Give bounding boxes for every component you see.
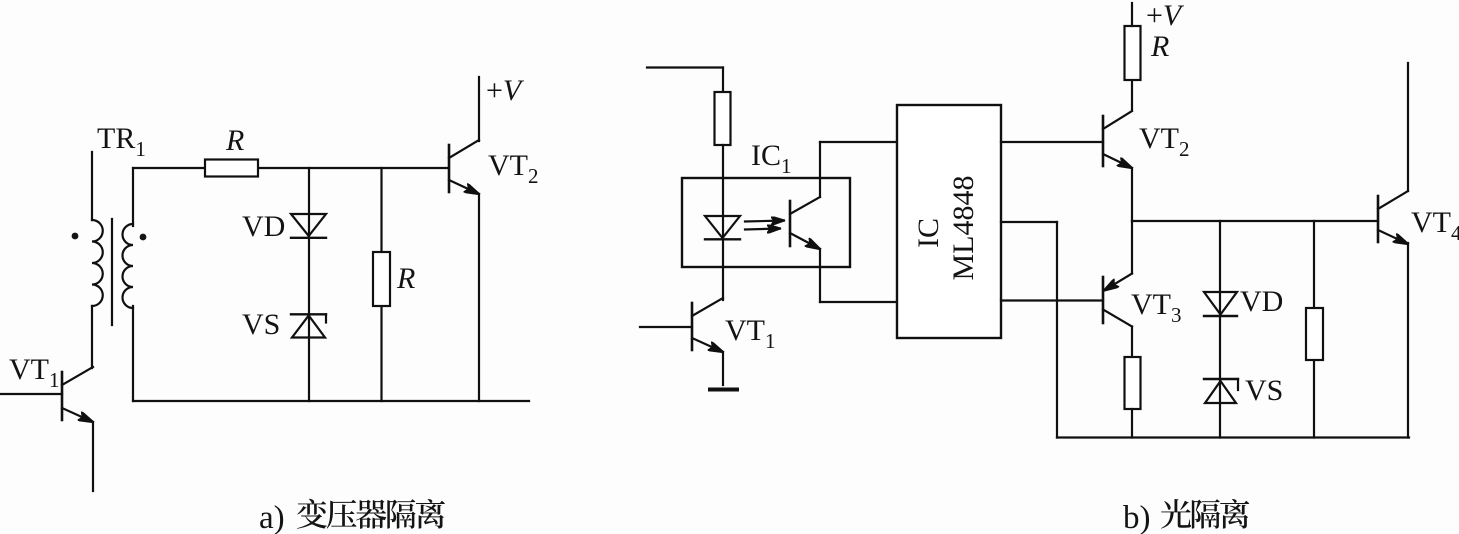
resistor R (load) xyxy=(373,252,390,306)
wire VT4 emitter to rail xyxy=(1407,243,1409,438)
light arrow lower xyxy=(745,229,780,230)
light arrow upper xyxy=(745,221,784,222)
wire LED branch xyxy=(722,145,724,300)
caption char 光 xyxy=(1161,499,1191,529)
wire VD/VS branch xyxy=(308,168,310,401)
wire secondary bottom lead xyxy=(132,306,134,401)
svg-text:VD: VD xyxy=(242,210,285,243)
wire VD/VS branch b xyxy=(1219,221,1221,438)
svg-text:VS: VS xyxy=(242,308,280,341)
wire VT1(b) emitter lead xyxy=(722,352,724,385)
transistor VT2 (b) xyxy=(1103,111,1132,168)
wire VT1 base lead xyxy=(0,393,62,395)
wire IC pin 2 xyxy=(1001,221,1057,223)
diode VD (b) xyxy=(1204,292,1237,316)
wire transformer primary bottom lead xyxy=(91,306,93,368)
wire VT2(b) emitter to node xyxy=(1131,168,1133,221)
wire opto to IC pin4 xyxy=(820,301,897,303)
LED (optocoupler) xyxy=(705,216,740,239)
wire +V lead (b) xyxy=(1131,3,1133,26)
wire R branch xyxy=(380,168,382,401)
op-amp IC ML4848 box xyxy=(897,105,1001,338)
resistor (output) xyxy=(1306,308,1323,360)
wire VT1 emitter lead xyxy=(92,422,94,491)
transistor VT2 xyxy=(449,140,479,194)
svg-text:R: R xyxy=(225,124,244,157)
wire VT1(b) base lead xyxy=(640,326,692,328)
svg-text:VD: VD xyxy=(1240,285,1283,318)
svg-text:+V: +V xyxy=(486,74,525,107)
transistor VT1 xyxy=(62,367,93,422)
transformer TR1 primary winding xyxy=(92,220,103,306)
wire node to VT3 emitter xyxy=(1131,221,1133,274)
wire transformer primary top lead xyxy=(91,152,93,220)
diode VD xyxy=(291,214,326,238)
transformer TR1 secondary winding xyxy=(123,224,134,308)
wire VT3 collector xyxy=(1131,327,1133,358)
svg-text:VS: VS xyxy=(1245,374,1283,407)
wire VT4 collector stub xyxy=(1407,63,1409,191)
caption char 离 xyxy=(416,499,445,529)
svg-text:ML4848: ML4848 xyxy=(947,176,980,281)
wire top rail a xyxy=(133,167,449,169)
wire secondary top lead xyxy=(132,168,134,226)
wire IC pin to VT3 base xyxy=(1001,299,1103,301)
transistor VT4 xyxy=(1378,191,1408,244)
transistor VT3 (PNP) xyxy=(1103,274,1132,327)
wire resistor branch b xyxy=(1313,221,1315,438)
caption char 隔 xyxy=(1192,499,1220,528)
wire VT2(b) collector xyxy=(1131,80,1133,110)
zener diode VS (b) xyxy=(1204,379,1238,403)
wire input lead xyxy=(722,68,724,93)
caption char 变 xyxy=(297,499,327,529)
polarity dot secondary xyxy=(140,234,147,241)
wire bottom rail a xyxy=(133,400,529,402)
wire opto to IC pin1 xyxy=(820,141,897,143)
resistor R (series) xyxy=(205,160,258,177)
svg-text:b): b) xyxy=(1123,500,1151,534)
wire node to VT4 base xyxy=(1132,220,1378,222)
phototransistor xyxy=(790,197,820,249)
wire VT2 emitter lead xyxy=(478,194,480,401)
caption char 器 xyxy=(356,500,386,529)
resistor R (b) xyxy=(1125,26,1141,80)
resistor (input) xyxy=(715,92,731,145)
wire VT2 collector to +V xyxy=(478,77,480,141)
wire VT3 resistor to rail xyxy=(1131,409,1133,438)
svg-text:R: R xyxy=(396,262,415,295)
caption char 离 xyxy=(1220,499,1249,529)
polarity dot primary xyxy=(72,233,79,240)
resistor (VT3 load) xyxy=(1125,357,1141,409)
wire IC pin2 to rail xyxy=(1056,222,1058,438)
wire bottom rail b xyxy=(1057,436,1409,438)
svg-text:IC: IC xyxy=(912,218,945,248)
wire phototransistor emitter xyxy=(819,249,821,302)
svg-text:R: R xyxy=(1150,30,1169,63)
caption char 隔 xyxy=(387,499,415,528)
optocoupler IC1 box xyxy=(682,178,850,267)
wire input stub b xyxy=(647,66,723,68)
transformer TR1 core xyxy=(111,219,113,325)
wire phototransistor collector xyxy=(819,142,821,197)
transistor VT1 (b) xyxy=(692,298,723,352)
caption char 压 xyxy=(327,500,357,529)
zener diode VS xyxy=(291,314,326,337)
wire IC pin to VT2(b) base xyxy=(1001,141,1103,143)
ground xyxy=(710,388,737,392)
svg-text:a): a) xyxy=(259,500,285,534)
svg-text:+V: +V xyxy=(1146,0,1185,32)
